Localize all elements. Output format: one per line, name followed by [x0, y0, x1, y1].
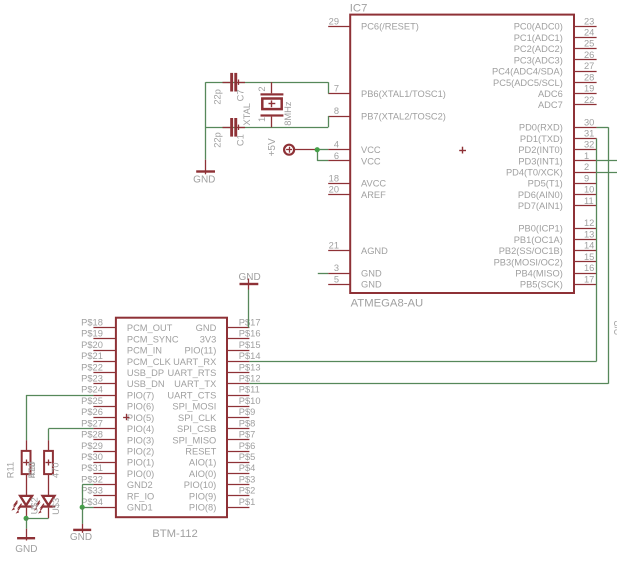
- svg-text:GND: GND: [196, 323, 217, 333]
- svg-text:C7: C7: [236, 89, 246, 101]
- svg-text:P$25: P$25: [81, 396, 103, 406]
- svg-text:4: 4: [334, 140, 339, 150]
- svg-text:14: 14: [584, 241, 594, 251]
- svg-text:PIO(2): PIO(2): [127, 447, 154, 457]
- svg-text:PB6(XTAL1/TOSC1): PB6(XTAL1/TOSC1): [361, 89, 446, 99]
- svg-text:PD4(T0/XCK): PD4(T0/XCK): [506, 168, 563, 178]
- svg-text:PIO(0): PIO(0): [127, 469, 154, 479]
- svg-text:P$20: P$20: [81, 340, 103, 350]
- svg-text:PIO(6): PIO(6): [127, 402, 154, 412]
- svg-text:GND: GND: [238, 272, 260, 283]
- svg-text:VCC: VCC: [361, 145, 381, 155]
- svg-text:P$29: P$29: [81, 441, 103, 451]
- svg-text:PCM_SYNC: PCM_SYNC: [127, 334, 179, 344]
- svg-text:PIO(3): PIO(3): [127, 435, 154, 445]
- svg-text:VCC: VCC: [361, 156, 381, 166]
- svg-text:10: 10: [584, 185, 594, 195]
- svg-text:USB_DN: USB_DN: [127, 379, 165, 389]
- svg-text:7: 7: [334, 84, 339, 94]
- svg-text:BTM-112: BTM-112: [152, 528, 198, 540]
- svg-text:AGND: AGND: [361, 246, 388, 256]
- svg-text:8MHz: 8MHz: [283, 101, 293, 126]
- svg-text:GND: GND: [361, 280, 382, 290]
- svg-text:UART_RTS: UART_RTS: [168, 368, 217, 378]
- svg-text:15: 15: [584, 252, 594, 262]
- svg-text:GND1: GND1: [127, 503, 153, 513]
- svg-text:P$14: P$14: [239, 351, 261, 361]
- svg-text:AIO(1): AIO(1): [189, 458, 216, 468]
- svg-text:PB7(XTAL2/TOSC2): PB7(XTAL2/TOSC2): [361, 111, 446, 121]
- svg-text:PB1(OC1A): PB1(OC1A): [514, 235, 563, 245]
- svg-text:6: 6: [334, 151, 339, 161]
- svg-text:PIO(8): PIO(8): [189, 503, 216, 513]
- svg-text:AREF: AREF: [361, 190, 386, 200]
- svg-text:P$4: P$4: [239, 463, 256, 473]
- svg-text:PB3(MOSI/OC2): PB3(MOSI/OC2): [494, 257, 563, 267]
- svg-text:SPI_CSB: SPI_CSB: [177, 424, 216, 434]
- svg-text:P$28: P$28: [81, 430, 103, 440]
- svg-text:PIO(10): PIO(10): [184, 480, 217, 490]
- svg-text:21: 21: [329, 241, 339, 251]
- svg-text:22: 22: [584, 95, 594, 105]
- svg-text:28: 28: [584, 72, 594, 82]
- svg-text:2: 2: [584, 162, 589, 172]
- svg-text:P$15: P$15: [239, 340, 261, 350]
- svg-text:PB5(SCK): PB5(SCK): [520, 280, 563, 290]
- svg-text:29: 29: [329, 16, 339, 26]
- svg-text:PIO(7): PIO(7): [127, 390, 154, 400]
- svg-text:31: 31: [584, 129, 594, 139]
- svg-text:PD6(AIN0): PD6(AIN0): [518, 190, 563, 200]
- svg-text:25: 25: [584, 39, 594, 49]
- svg-text:P$26: P$26: [81, 407, 103, 417]
- svg-text:P$32: P$32: [81, 474, 103, 484]
- svg-text:+5V: +5V: [267, 138, 278, 156]
- svg-text:P$30: P$30: [81, 452, 103, 462]
- svg-text:PD3(INT1): PD3(INT1): [518, 156, 562, 166]
- svg-text:UART_RX: UART_RX: [173, 357, 216, 367]
- svg-text:GND: GND: [70, 532, 92, 543]
- svg-text:24: 24: [584, 28, 594, 38]
- svg-text:P$23: P$23: [81, 374, 103, 384]
- svg-text:1: 1: [257, 117, 267, 122]
- svg-text:PIO(11): PIO(11): [184, 346, 216, 356]
- svg-text:23: 23: [584, 16, 594, 26]
- svg-text:P$12: P$12: [239, 374, 261, 384]
- svg-text:PB0(ICP1): PB0(ICP1): [518, 224, 562, 234]
- svg-text:P$10: P$10: [239, 396, 261, 406]
- svg-text:IC7: IC7: [350, 3, 368, 15]
- svg-text:P$7: P$7: [239, 430, 256, 440]
- svg-text:P$33: P$33: [81, 486, 103, 496]
- svg-text:AIO(0): AIO(0): [189, 469, 216, 479]
- svg-text:P$11: P$11: [239, 385, 260, 395]
- svg-text:PD1(TXD): PD1(TXD): [520, 134, 563, 144]
- svg-text:9: 9: [584, 173, 589, 183]
- svg-text:SPI_CLK: SPI_CLK: [178, 413, 217, 423]
- svg-text:PD5(T1): PD5(T1): [528, 179, 563, 189]
- svg-text:PD7(AIN1): PD7(AIN1): [518, 201, 563, 211]
- svg-text:P$1: P$1: [239, 497, 256, 507]
- svg-text:P$16: P$16: [239, 329, 261, 339]
- svg-text:PC3(ADC3): PC3(ADC3): [514, 55, 563, 65]
- svg-text:3V3: 3V3: [200, 334, 217, 344]
- svg-text:P$34: P$34: [81, 497, 103, 507]
- svg-text:RF_IO: RF_IO: [127, 491, 154, 501]
- svg-text:U$2: U$2: [30, 497, 40, 514]
- svg-text:30: 30: [584, 117, 594, 127]
- svg-text:20: 20: [329, 185, 339, 195]
- svg-text:XTAL: XTAL: [242, 103, 252, 126]
- svg-text:PC1(ADC1): PC1(ADC1): [514, 33, 563, 43]
- svg-text:22p: 22p: [212, 89, 222, 105]
- svg-text:26: 26: [584, 50, 594, 60]
- svg-text:P$24: P$24: [81, 385, 103, 395]
- svg-text:U$3: U$3: [51, 498, 61, 515]
- svg-text:P$9: P$9: [239, 407, 256, 417]
- svg-text:32: 32: [584, 140, 594, 150]
- svg-text:UART_CTS: UART_CTS: [167, 390, 216, 400]
- svg-text:PC5(ADC5/SCL): PC5(ADC5/SCL): [493, 78, 563, 88]
- svg-text:PIO(4): PIO(4): [127, 424, 154, 434]
- svg-text:5: 5: [334, 274, 339, 284]
- svg-text:PC4(ADC4/SDA): PC4(ADC4/SDA): [492, 67, 563, 77]
- svg-text:P$31: P$31: [81, 463, 103, 473]
- svg-text:PB2(SS/OC1B): PB2(SS/OC1B): [499, 246, 563, 256]
- svg-text:USB_DP: USB_DP: [127, 368, 164, 378]
- svg-text:SPI_MOSI: SPI_MOSI: [172, 402, 216, 412]
- svg-text:470: 470: [51, 462, 61, 478]
- svg-text:2: 2: [257, 86, 267, 91]
- svg-text:PCM_IN: PCM_IN: [127, 346, 162, 356]
- svg-text:PC0(ADC0): PC0(ADC0): [514, 22, 563, 32]
- svg-text:8: 8: [334, 106, 339, 116]
- svg-text:PB4(MISO): PB4(MISO): [515, 269, 563, 279]
- svg-text:P$19: P$19: [81, 329, 103, 339]
- svg-text:P$13: P$13: [239, 362, 261, 372]
- svg-text:PIO(9): PIO(9): [189, 491, 216, 501]
- svg-text:GND: GND: [193, 175, 215, 186]
- svg-text:SPI_MISO: SPI_MISO: [172, 435, 216, 445]
- svg-text:UART_TX: UART_TX: [174, 379, 216, 389]
- svg-text:16: 16: [584, 263, 594, 273]
- svg-text:22p: 22p: [212, 132, 222, 148]
- svg-text:P$3: P$3: [239, 474, 256, 484]
- svg-text:P$2: P$2: [239, 486, 256, 496]
- svg-text:P$8: P$8: [239, 418, 256, 428]
- svg-text:PCM_CLK: PCM_CLK: [127, 357, 172, 367]
- svg-text:GND: GND: [361, 269, 382, 279]
- svg-text:P$21: P$21: [81, 351, 103, 361]
- svg-text:C1: C1: [236, 134, 246, 146]
- svg-text:1: 1: [584, 151, 589, 161]
- svg-text:P$5: P$5: [239, 452, 256, 462]
- svg-text:PIO(5): PIO(5): [127, 413, 154, 423]
- svg-text:GND2: GND2: [127, 480, 153, 490]
- svg-text:ATMEGA8-AU: ATMEGA8-AU: [351, 298, 424, 310]
- svg-text:P$17: P$17: [239, 317, 261, 327]
- svg-text:R10: R10: [27, 461, 37, 478]
- svg-text:PC6(/RESET): PC6(/RESET): [361, 22, 419, 32]
- svg-text:PD0(RXD): PD0(RXD): [519, 123, 563, 133]
- svg-text:PC2(ADC2): PC2(ADC2): [514, 44, 563, 54]
- svg-text:AVCC: AVCC: [361, 179, 386, 189]
- svg-text:PIO(1): PIO(1): [127, 458, 154, 468]
- svg-text:PD2(INT0): PD2(INT0): [518, 145, 562, 155]
- svg-text:19: 19: [584, 84, 594, 94]
- svg-text:3: 3: [334, 263, 339, 273]
- svg-text:12: 12: [584, 218, 594, 228]
- svg-text:GND: GND: [15, 544, 37, 555]
- svg-text:RESET: RESET: [185, 447, 216, 457]
- svg-text:13: 13: [584, 229, 594, 239]
- svg-text:P$22: P$22: [81, 362, 103, 372]
- svg-text:17: 17: [584, 274, 594, 284]
- svg-text:11: 11: [584, 196, 594, 206]
- svg-text:18: 18: [329, 173, 339, 183]
- svg-text:ADC6: ADC6: [538, 89, 563, 99]
- svg-text:ADC7: ADC7: [538, 100, 563, 110]
- svg-text:P$18: P$18: [81, 317, 103, 327]
- svg-text:PCM_OUT: PCM_OUT: [127, 323, 173, 333]
- svg-text:27: 27: [584, 61, 594, 71]
- svg-text:P$6: P$6: [239, 441, 256, 451]
- svg-text:R11: R11: [5, 462, 15, 478]
- svg-text:P$27: P$27: [81, 418, 103, 428]
